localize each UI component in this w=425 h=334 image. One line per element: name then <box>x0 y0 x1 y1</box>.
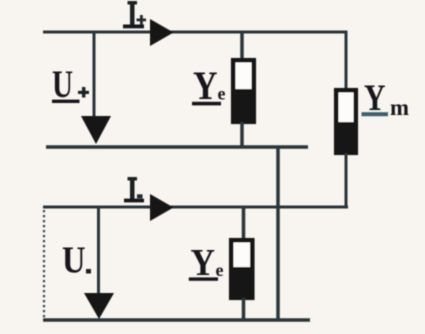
voltage arrow U- head <box>84 293 114 319</box>
wire Ye2 bottom lead <box>242 298 246 321</box>
admittance Ye2 body <box>231 240 253 298</box>
admittance Ye1 body <box>233 60 254 122</box>
wire Ye1 bottom lead <box>240 122 244 148</box>
svg-text:e: e <box>218 83 226 103</box>
svg-text:Y: Y <box>193 63 218 108</box>
wire vertical link node <box>276 147 280 321</box>
svg-text:m: m <box>390 95 409 120</box>
label I- <box>124 177 144 202</box>
dotted boundary line <box>43 210 45 319</box>
label Ye1 <box>192 63 226 108</box>
wire U- voltage arrow stem <box>97 207 100 296</box>
label Ym <box>362 78 410 120</box>
wire Ye1 top lead <box>240 32 244 61</box>
wire Ye2 top lead <box>242 207 246 240</box>
wire Ym bottom lead <box>345 153 348 209</box>
label I+ <box>123 1 146 28</box>
current arrow I- <box>150 194 174 221</box>
label U- <box>62 239 91 281</box>
label Ye2 <box>189 242 224 284</box>
label U+ <box>52 63 89 106</box>
wire bottom bus <box>43 318 310 322</box>
voltage arrow U+ head <box>81 116 111 144</box>
wire Ym top lead <box>345 31 348 91</box>
wire lower bus <box>43 206 348 209</box>
wire U+ voltage arrow stem <box>93 32 96 120</box>
current arrow I+ <box>150 19 174 46</box>
svg-text:e: e <box>216 260 224 280</box>
svg-text:U: U <box>52 63 73 106</box>
svg-text:U: U <box>62 239 86 281</box>
wire middle bus <box>46 145 308 149</box>
wire top bus <box>43 31 346 34</box>
admittance Ym body <box>336 90 356 153</box>
